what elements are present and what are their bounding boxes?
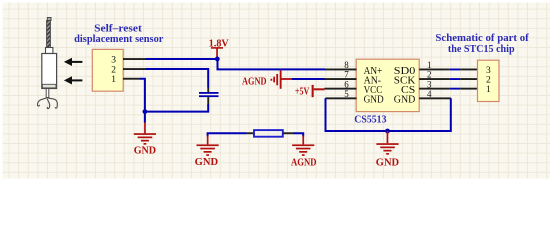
sheet background: [0, 0, 550, 181]
svg-text:GND: GND: [364, 95, 384, 106]
ground GND1 (below J1): [134, 123, 157, 157]
annotation arrow 1: [64, 58, 83, 66]
wire: J1 pin1 down to ground node: [140, 79, 145, 123]
wire: J1 pin2 to capacitor top: [146, 69, 208, 88]
wire: resistor right to AGND: [293, 133, 303, 136]
J1 pin 1 lead: [123, 78, 140, 80]
J2 pin numbers: [486, 66, 491, 95]
svg-text:3: 3: [427, 79, 432, 89]
sensor cylinder bottom band: [42, 84, 56, 88]
label: Schematic of part of the STC15 chip: [435, 33, 529, 55]
displacement sensor body: [37, 18, 57, 109]
svg-text:1: 1: [111, 75, 116, 85]
J1 pin 3 lead: [123, 58, 146, 60]
svg-text:displacement sensor: displacement sensor: [74, 34, 164, 45]
svg-text:7: 7: [344, 70, 349, 80]
wire: chip CS to J2 pin1: [450, 88, 461, 90]
svg-text:CS5513: CS5513: [354, 115, 386, 126]
connector J2 (STC15 header): [478, 60, 500, 101]
power port 1.8V: [209, 39, 229, 58]
pin lead J2 pin1: [460, 88, 477, 90]
pin lead J2 pin3: [460, 69, 477, 71]
sensor stem: [46, 89, 49, 98]
U1 left pin numbers 8 7 6 5: [344, 60, 349, 99]
svg-text:3: 3: [111, 55, 116, 65]
wire: AGND to chip AN-: [292, 78, 325, 80]
capacitor C1: [199, 88, 219, 105]
sensor claw: [37, 98, 46, 106]
resistor R1 right lead: [283, 132, 293, 134]
pin lead J2 pin2: [460, 78, 477, 80]
svg-text:1: 1: [486, 85, 491, 95]
wire: +5V to chip VCC: [314, 88, 325, 90]
svg-text:GND: GND: [394, 95, 416, 106]
svg-text:2: 2: [427, 70, 432, 80]
U1 right pin leads: [419, 69, 450, 71]
svg-text:2: 2: [111, 65, 116, 75]
resistor R1: [254, 130, 283, 137]
svg-text:AGND: AGND: [291, 158, 317, 169]
U1 left pin leads: [325, 69, 357, 71]
svg-text:AGND: AGND: [242, 76, 267, 87]
svg-text:1.8V: 1.8V: [209, 39, 229, 50]
svg-text:the STC15 chip: the STC15 chip: [448, 44, 515, 55]
svg-text:+5V: +5V: [295, 86, 310, 97]
svg-text:3: 3: [486, 66, 491, 76]
svg-text:8: 8: [344, 60, 349, 70]
sensor cylinder: [42, 54, 57, 89]
wire: J1 pin3 to 1.8V rail and chip AN+: [146, 59, 325, 69]
wire: ground rail to resistor left: [208, 133, 247, 136]
svg-text:Self–reset: Self–reset: [94, 23, 142, 34]
svg-text:GND: GND: [134, 146, 157, 157]
J1 pin 2 lead: [123, 68, 146, 70]
svg-text:GND: GND: [376, 158, 400, 169]
sensor threaded rod: [47, 21, 51, 48]
svg-text:Schematic of part of: Schematic of part of: [435, 33, 529, 44]
ground AGND3 (right of resistor): [291, 136, 317, 169]
label: Self-reset displacement sensor: [74, 23, 164, 45]
wire: chip SD0 to J2 pin3: [450, 69, 461, 71]
sensor rod top cap: [47, 18, 51, 21]
ground GND4 (below chip): [376, 131, 400, 169]
svg-text:GND: GND: [195, 157, 219, 168]
svg-text:1: 1: [427, 60, 432, 70]
junction: ground node under J1: [143, 109, 148, 114]
power port AGND (analog ground, left of chip): [242, 70, 292, 89]
junction: 1.8V node: [215, 57, 220, 62]
chip U1 CS5513: [325, 59, 451, 125]
svg-text:4: 4: [427, 89, 432, 99]
J1 pin numbers: [111, 55, 116, 85]
wire: chip GND pins 5 and 4 to ground rail: [326, 98, 451, 131]
sensor collar: [46, 48, 53, 54]
power port +5V: [295, 85, 314, 98]
wire: chip SCK to J2 pin2: [450, 78, 461, 80]
connector J1 (sensor connector): [92, 49, 146, 91]
U1 left pin names: [364, 66, 384, 106]
annotation arrow 2: [64, 76, 83, 84]
wire: capacitor bottom to ground node: [145, 104, 208, 112]
resistor R1 left lead: [247, 132, 255, 134]
U1 right pin numbers 1 2 3 4: [427, 60, 432, 99]
ground GND2 (left of resistor): [195, 136, 219, 169]
junction: ground node under chip: [385, 129, 390, 134]
svg-text:6: 6: [344, 79, 349, 89]
svg-text:2: 2: [486, 76, 491, 86]
U1 right pin names: [394, 66, 416, 106]
svg-text:5: 5: [344, 89, 349, 99]
